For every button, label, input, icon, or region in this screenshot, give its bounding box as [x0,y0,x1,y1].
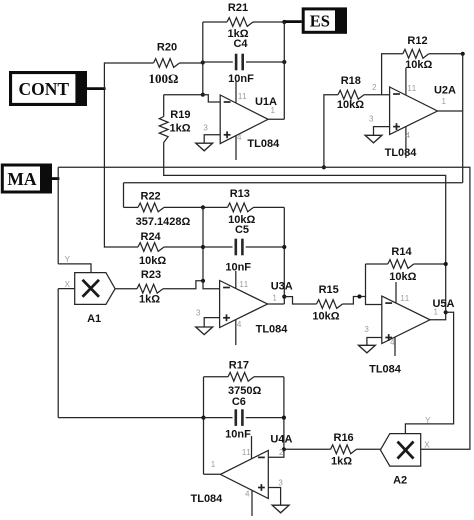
multiplier A1 [75,273,115,305]
resistor R22 [138,203,164,212]
svg-text:10nF: 10nF [225,262,251,274]
wire A1 X lead [58,288,74,290]
wire rail A lower [202,63,204,96]
svg-text:3: 3 [203,124,208,133]
wire rail F [203,377,205,475]
wire ES link [284,20,301,23]
wire CONT vertical [103,62,105,247]
svg-text:1: 1 [211,460,216,469]
wire R15 right jog [343,297,382,305]
wire rail D [202,207,204,280]
svg-text:2: 2 [279,448,284,457]
node C6 right junction [282,416,286,420]
wire U4A plus [268,488,280,506]
resistor R21 [227,18,253,27]
svg-text:R19: R19 [170,109,190,121]
svg-text:R15: R15 [319,284,339,296]
wire U5A output [430,312,446,320]
wire U4A output [204,473,221,475]
node R14 right junction [444,262,448,266]
svg-text:1: 1 [434,308,439,317]
pin 11 U1A stub [235,81,237,103]
node R18 bus junction [322,165,326,169]
ground U2A [365,135,382,143]
node U4A minus junction [282,447,286,451]
svg-text:1: 1 [442,97,447,106]
svg-text:357.1428Ω: 357.1428Ω [136,216,191,228]
svg-text:R24: R24 [141,231,162,243]
resistor R15 [317,300,343,309]
resistor R14 [388,260,414,269]
pin 11 U5A stub [395,282,397,303]
wire R24 left [104,246,138,248]
resistor R18 [338,90,364,99]
wire R14 right [414,263,446,265]
svg-text:Y: Y [65,255,71,264]
svg-text:A2: A2 [393,475,407,487]
ground U3A [196,327,213,335]
op-amp U1A [220,95,268,144]
node R24/C5 junction [201,245,205,249]
wire bottom feedback [58,417,203,419]
wire R12 right [429,53,463,55]
wire R14 left [366,263,388,265]
multiplier A2 cross [398,442,414,459]
ground U4A [272,505,289,513]
node R22/R13 junction [201,205,205,209]
svg-text:10nF: 10nF [225,429,251,441]
svg-text:10kΩ: 10kΩ [405,59,432,71]
svg-text:U3A: U3A [271,281,293,293]
capacitor C4 [235,54,238,71]
svg-text:TL084: TL084 [369,364,402,376]
wire R17 left [204,376,229,378]
wire bus3 left drop [123,183,125,208]
svg-text:R13: R13 [230,188,250,200]
op-amp U2A [390,87,438,135]
ground U5A [359,345,376,353]
wire CONT to node [87,87,106,90]
svg-text:R14: R14 [391,246,412,258]
resistor R20 [154,59,180,68]
wire R17 right [254,376,284,378]
port MA [1,164,52,194]
svg-text:1kΩ: 1kΩ [169,123,190,135]
node C6 left junction [201,416,205,420]
wire R19 lower lead [163,143,165,177]
wire R19 upper lead [163,95,165,117]
wire R12 left [382,54,403,95]
node C5 right junction [282,245,286,249]
svg-text:A1: A1 [87,313,101,325]
svg-text:R17: R17 [229,360,249,372]
svg-text:TL084: TL084 [385,147,418,159]
pin 4 U1A stub [235,136,237,161]
svg-text:1: 1 [271,106,276,115]
node U3A output junction [282,295,286,299]
node U3A minus junction [201,279,205,283]
op-amp U4A [220,450,268,498]
wire R18 right [364,94,390,96]
wire C6 right [246,417,284,419]
svg-text:X: X [424,441,430,450]
wire U3A minus jog [203,281,220,289]
svg-text:10kΩ: 10kΩ [389,271,416,283]
svg-text:4: 4 [245,490,250,499]
wire C5 right [246,246,285,248]
wire U3A plus [204,318,219,327]
svg-text:MA: MA [7,169,37,189]
svg-text:Y: Y [425,416,431,425]
svg-text:10nF: 10nF [228,73,254,85]
pin 4 U4A stub [251,490,253,516]
wire R13 left [203,206,228,208]
wire U3A out jog [284,297,316,304]
node R12 output junction [461,52,465,56]
svg-text:11: 11 [407,84,416,93]
svg-text:10kΩ: 10kΩ [312,311,339,323]
svg-text:R20: R20 [157,42,177,54]
svg-text:3: 3 [278,479,283,488]
svg-text:10kΩ: 10kΩ [139,255,166,267]
svg-text:1: 1 [272,294,277,303]
svg-text:U4A: U4A [270,434,292,446]
svg-text:11: 11 [239,280,248,289]
capacitor C5 [235,239,238,256]
resistor R19 [159,117,168,143]
wire U2A output [438,110,463,112]
node C4 right junction [282,60,286,64]
wire A1 output [115,288,137,290]
wire U3A output [268,303,285,305]
svg-text:4: 4 [390,338,395,347]
svg-text:1kΩ: 1kΩ [331,456,352,468]
svg-text:R16: R16 [334,432,354,444]
svg-text:4: 4 [406,131,411,140]
wire bus line 1 [58,167,470,449]
wire U5A plus [367,338,382,346]
wire R23 right [163,281,203,289]
wire R21 left [203,21,227,23]
svg-text:ES: ES [310,12,330,31]
wire A1 X vertical [57,289,59,418]
svg-text:100Ω: 100Ω [149,71,179,86]
wire C4 right [246,61,284,63]
wire C4 left [203,61,233,63]
ground U1A [196,143,213,151]
multiplier A1 cross [83,280,100,297]
op-amp U5A [382,296,430,343]
svg-text:11: 11 [400,294,409,303]
svg-text:11: 11 [242,448,251,457]
wire MA link [52,177,59,180]
resistor R17 [228,372,254,381]
wire U1A minus jog [203,95,220,102]
resistor R23 [137,284,163,293]
node U5A output junction [444,310,448,314]
port ES [302,7,347,33]
svg-text:R12: R12 [407,35,427,47]
wire C5 left [203,246,233,248]
wire R20 left [104,62,153,64]
wire U2A plus [374,127,390,136]
wire R16 right [357,448,381,450]
pin 11 U2A stub [405,68,407,95]
svg-text:11: 11 [238,92,247,101]
wire R20 right [180,62,203,64]
wire R21 right [253,21,284,23]
wire U3A out rail link [283,297,285,304]
resistor R12 [403,49,429,58]
node R15/R14 junction [357,294,361,298]
wire rail E [283,207,285,296]
pin 11 U3A stub [235,271,237,289]
op-amp U3A [220,281,268,328]
wire MA vertical [57,167,59,264]
wire C6 left [204,417,233,419]
wire R16 left [284,448,331,450]
wire R14 left drop [365,264,367,297]
node U1A minus junction [201,93,205,97]
wire U1A plus [204,135,220,143]
svg-text:C4: C4 [233,38,248,50]
svg-text:C5: C5 [235,224,249,236]
wire bus line 3 [124,182,463,184]
resistor R13 [228,203,254,212]
wire U4A minus jog [268,449,284,457]
wire U2A fb rail [462,54,464,183]
wire rail A upper [202,22,204,63]
svg-text:C6: C6 [232,396,246,408]
node R21/ES junction [282,20,286,24]
pin 4 U3A stub [235,320,237,346]
svg-text:CONT: CONT [18,79,69,99]
svg-text:2: 2 [372,83,377,92]
svg-text:TL084: TL084 [247,138,280,150]
svg-text:R23: R23 [141,269,161,281]
pin 4 U5A stub [394,337,396,356]
svg-text:3: 3 [369,115,374,124]
svg-text:R21: R21 [228,2,248,14]
pin 11 U4A stub [251,436,253,459]
svg-text:3: 3 [196,309,201,318]
wire A1 Y lead [58,264,91,273]
wire U1A output [268,118,284,120]
svg-text:TL084: TL084 [191,493,224,505]
wire R22 left [124,206,139,208]
wire R24 right [164,246,203,248]
node R20/C4 junction [201,60,205,64]
svg-text:4: 4 [237,320,242,329]
resistor R16 [331,445,357,454]
svg-text:R22: R22 [141,191,161,203]
multiplier A2 [380,434,420,467]
wire bus line 2 [164,175,446,312]
pin 4 U2A stub [405,127,407,158]
wire R18 left [324,95,338,168]
wire U5A out to A2 [405,312,453,433]
wire R19 top [164,94,203,96]
svg-text:X: X [65,280,71,289]
capacitor C6 [235,409,238,426]
svg-text:1kΩ: 1kΩ [139,294,160,306]
svg-text:U2A: U2A [434,85,456,97]
wire R22 right [164,206,203,208]
wire rail B right [283,22,285,119]
svg-text:10kΩ: 10kΩ [337,99,364,111]
wire R13 right [254,206,285,208]
wire rail G [283,377,285,450]
svg-text:R18: R18 [341,75,361,87]
svg-text:3: 3 [364,325,369,334]
svg-text:TL084: TL084 [256,324,289,336]
resistor R24 [138,243,164,252]
svg-text:4: 4 [237,133,242,142]
port CONT [9,71,87,106]
